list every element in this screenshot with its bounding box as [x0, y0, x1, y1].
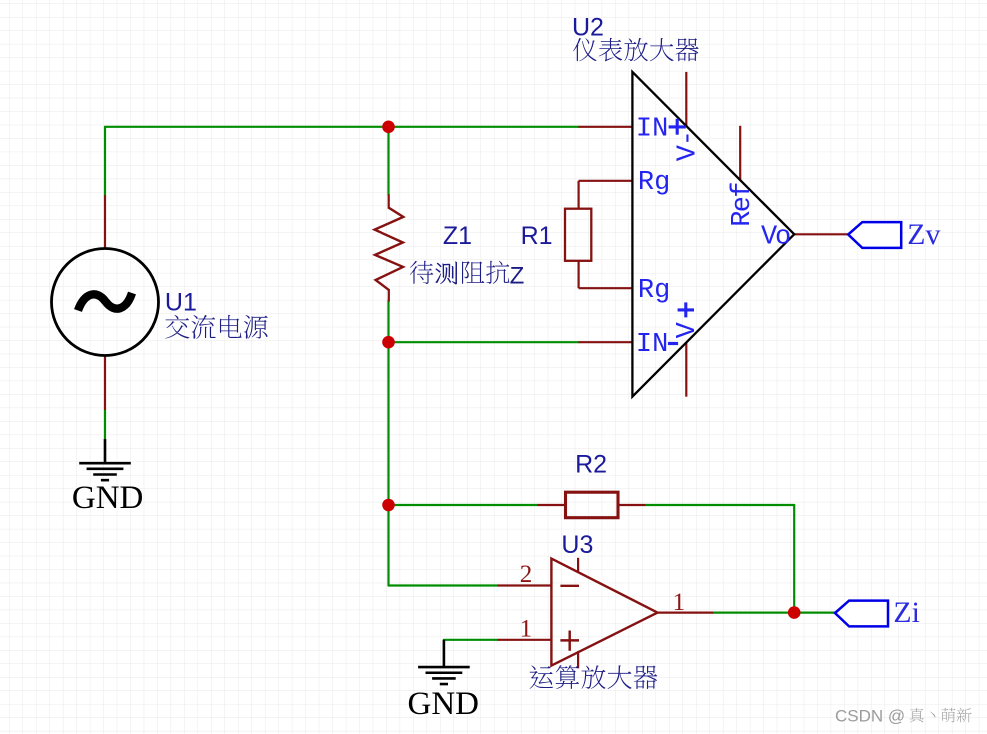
- svg-text:Rg: Rg: [638, 168, 670, 198]
- svg-text:U2: U2: [572, 14, 604, 42]
- svg-text:R2: R2: [575, 450, 607, 478]
- svg-text:Zv: Zv: [907, 218, 940, 251]
- svg-text:Zi: Zi: [893, 596, 919, 629]
- svg-text:CSDN @: CSDN @: [835, 707, 905, 726]
- svg-text:U1: U1: [165, 289, 197, 317]
- svg-text:Vo: Vo: [761, 222, 790, 252]
- svg-text:IN: IN: [636, 114, 668, 144]
- svg-text:1: 1: [673, 589, 686, 616]
- svg-text:Z1: Z1: [443, 222, 472, 250]
- svg-text:IN: IN: [636, 330, 668, 360]
- svg-text:U3: U3: [561, 531, 593, 559]
- svg-text:V-: V-: [673, 131, 703, 161]
- svg-text:Z: Z: [510, 262, 525, 289]
- svg-text:Ref: Ref: [728, 183, 758, 227]
- svg-text:GND: GND: [72, 480, 143, 516]
- svg-text:GND: GND: [408, 686, 480, 722]
- svg-text:1: 1: [520, 616, 533, 643]
- svg-text:Rg: Rg: [638, 276, 670, 306]
- svg-text:V: V: [673, 321, 703, 338]
- svg-text:R1: R1: [521, 222, 553, 250]
- svg-text:2: 2: [520, 561, 533, 588]
